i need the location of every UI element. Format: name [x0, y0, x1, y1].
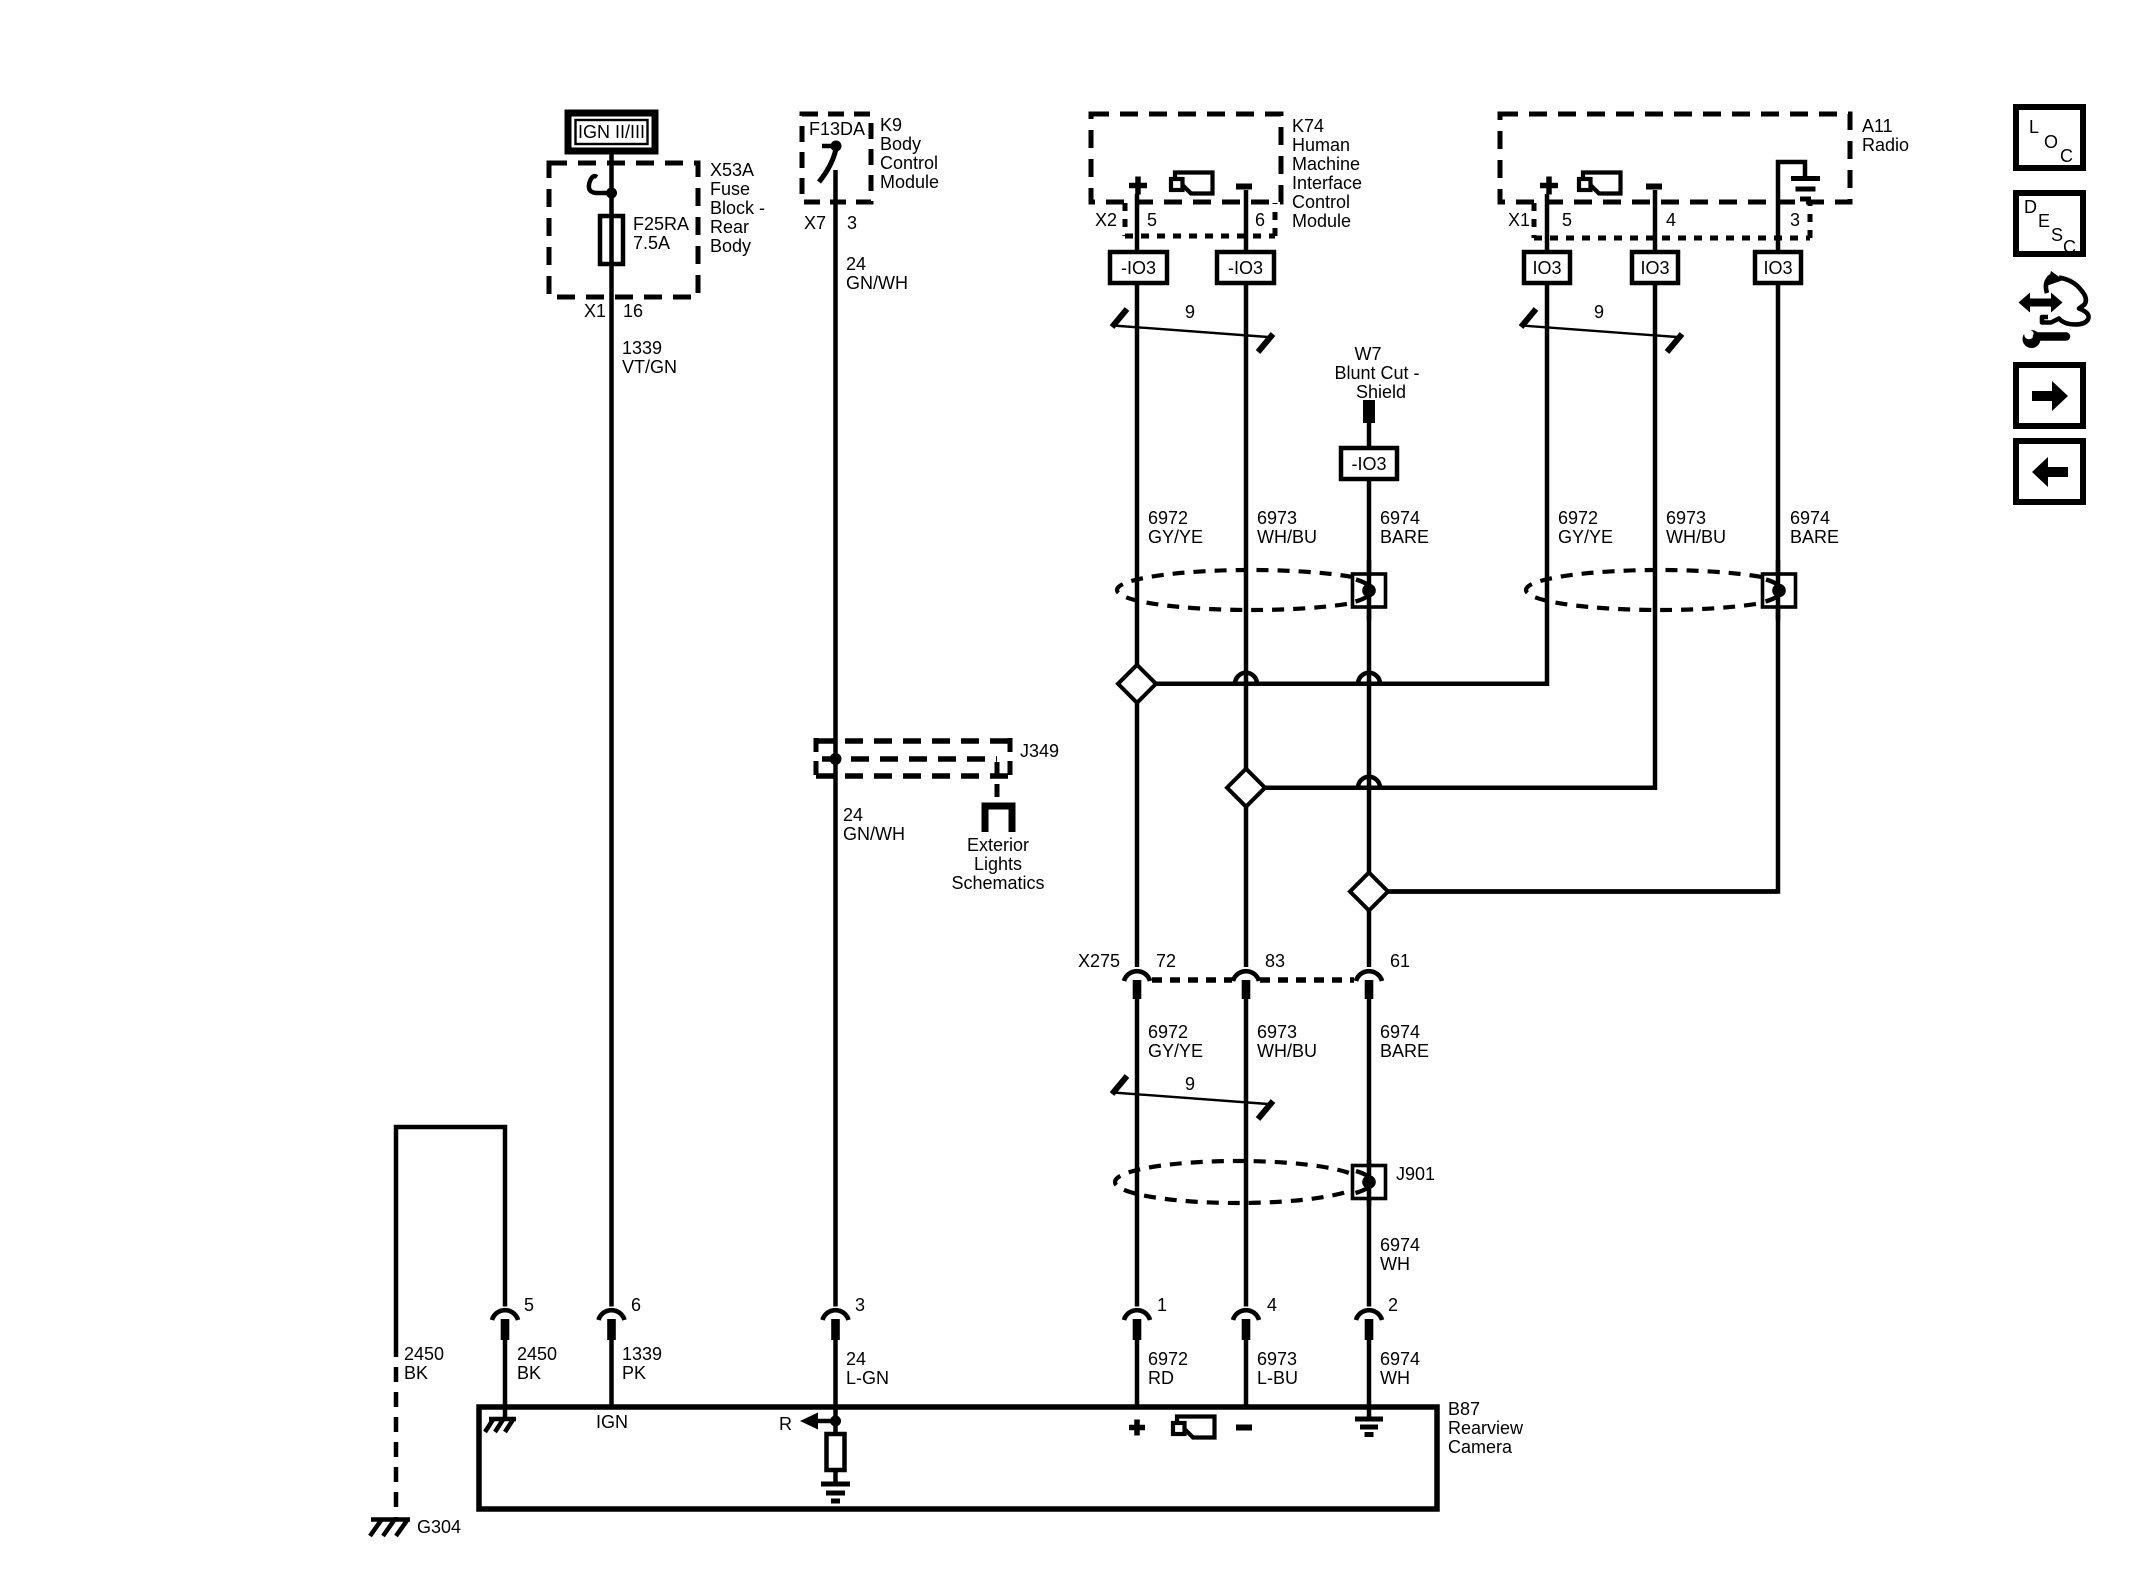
svg-text:E: E	[2038, 211, 2050, 231]
svg-text:GY/YE: GY/YE	[1558, 527, 1613, 547]
svg-text:C: C	[2060, 146, 2073, 166]
wire K74 pin6 to -IO3	[1244, 190, 1249, 252]
camera icon A11	[1579, 173, 1621, 194]
svg-text:IO3: IO3	[1640, 258, 1669, 278]
svg-text:S: S	[2051, 225, 2063, 245]
minus terminal camera	[1236, 1425, 1252, 1431]
svg-text:O: O	[2044, 132, 2058, 152]
svg-text:X53A: X53A	[710, 160, 754, 180]
shield drain box J901	[1353, 1166, 1386, 1199]
nav icon diagnostic (arrow and wrench)	[2012, 271, 2089, 348]
wire 6973 below X275	[1244, 999, 1249, 1307]
svg-text:X2: X2	[1095, 210, 1117, 230]
wire IGN feed into fuse block	[609, 152, 614, 216]
svg-text:L: L	[2029, 117, 2039, 137]
svg-text:24: 24	[843, 805, 863, 825]
camera connector pin 6	[599, 1310, 625, 1340]
plus terminal K74	[1129, 177, 1147, 195]
junction link BARE	[1388, 889, 1778, 894]
junction diamond BARE	[1350, 873, 1388, 911]
nav icon LOC	[2016, 107, 2083, 168]
svg-text:6974: 6974	[1380, 1235, 1420, 1255]
svg-text:Body: Body	[710, 236, 751, 256]
shield ellipse (HMI side)	[1117, 570, 1385, 610]
blunt cut stub W7	[1363, 400, 1375, 423]
svg-text:-IO3: -IO3	[1351, 454, 1386, 474]
junction dot BCM switch	[831, 141, 842, 152]
svg-text:6973: 6973	[1666, 508, 1706, 528]
svg-text:-IO3: -IO3	[1121, 258, 1156, 278]
svg-text:72: 72	[1156, 951, 1176, 971]
wire 24 GN/WH from BCM down	[833, 170, 838, 1307]
svg-text:16: 16	[623, 301, 643, 321]
svg-text:WH/BU: WH/BU	[1257, 527, 1317, 547]
svg-text:5: 5	[524, 1295, 534, 1315]
ground symbol below resistor	[821, 1484, 850, 1501]
ground branch wire 2450 BK left	[396, 1127, 505, 1342]
svg-text:BK: BK	[517, 1363, 541, 1383]
fuse F25RA	[600, 216, 623, 264]
svg-text:9: 9	[1185, 302, 1195, 322]
ground G304	[370, 1519, 410, 1536]
svg-text:6972: 6972	[1148, 1349, 1188, 1369]
rearview camera B87 box	[479, 1407, 1437, 1509]
wire stub to -IO3	[1367, 423, 1372, 448]
svg-text:RD: RD	[1148, 1368, 1174, 1388]
svg-text:6972: 6972	[1148, 508, 1188, 528]
svg-text:Radio: Radio	[1862, 135, 1909, 155]
nav icon next arrow	[2016, 365, 2083, 426]
svg-text:WH/BU: WH/BU	[1257, 1041, 1317, 1061]
power tag IGN II/III	[568, 113, 655, 151]
dashed wire to G304	[394, 1342, 399, 1518]
svg-text:IO3: IO3	[1763, 258, 1792, 278]
junction dot J349	[830, 753, 842, 765]
shield ground inside camera	[1355, 1419, 1383, 1435]
connector X275 dashed row	[1152, 977, 1232, 983]
svg-text:1339: 1339	[622, 338, 662, 358]
tag IO3 (A11 pin5)	[1524, 252, 1570, 283]
wire radio BARE down to junction	[1388, 283, 1778, 892]
svg-text:1: 1	[1157, 1295, 1167, 1315]
splice J349 dashed box	[816, 738, 1010, 779]
svg-text:G304: G304	[417, 1517, 461, 1537]
svg-text:-IO3: -IO3	[1228, 258, 1263, 278]
camera icon B87	[1173, 1417, 1215, 1438]
svg-text:K74: K74	[1292, 116, 1324, 136]
K74 pin row dotted	[1125, 203, 1275, 236]
svg-text:3: 3	[855, 1295, 865, 1315]
svg-text:6974: 6974	[1380, 508, 1420, 528]
svg-text:WH: WH	[1380, 1368, 1410, 1388]
svg-text:BK: BK	[404, 1363, 428, 1383]
svg-text:X275: X275	[1078, 951, 1120, 971]
svg-text:9: 9	[1185, 1074, 1195, 1094]
radio A11 dashed box	[1500, 114, 1850, 202]
svg-text:GN/WH: GN/WH	[843, 824, 905, 844]
svg-text:BARE: BARE	[1380, 1041, 1429, 1061]
tag IO3 (A11 pin3)	[1755, 252, 1801, 283]
svg-text:5: 5	[1147, 210, 1157, 230]
twisted pair symbol 9 (radio)	[1521, 302, 1682, 352]
ground symbol inside radio	[1778, 162, 1820, 202]
tag -IO3 (K74 pin5)	[1110, 252, 1167, 283]
svg-text:Body: Body	[880, 134, 921, 154]
svg-text:R: R	[779, 1414, 792, 1434]
wire 6974 below X275	[1367, 999, 1372, 1307]
junction link WH/BU with hop	[1265, 777, 1655, 788]
svg-text:F13DA: F13DA	[809, 119, 865, 139]
svg-text:6973: 6973	[1257, 1349, 1297, 1369]
svg-text:GN/WH: GN/WH	[846, 273, 908, 293]
svg-text:J901: J901	[1396, 1164, 1435, 1184]
svg-text:6: 6	[1255, 210, 1265, 230]
svg-text:X1: X1	[584, 301, 606, 321]
svg-text:2450: 2450	[404, 1344, 444, 1364]
svg-text:24: 24	[846, 1349, 866, 1369]
shield ellipse (radio side)	[1526, 570, 1794, 610]
svg-text:6972: 6972	[1148, 1022, 1188, 1042]
dashed drop from J349	[995, 762, 1000, 800]
svg-text:4: 4	[1666, 210, 1676, 230]
svg-text:IO3: IO3	[1532, 258, 1561, 278]
twisted pair symbol 9 (HMI)	[1112, 302, 1273, 352]
svg-text:Schematics: Schematics	[951, 873, 1044, 893]
wire BARE through drain box (HMI)	[1367, 560, 1372, 620]
svg-text:L-GN: L-GN	[846, 1368, 889, 1388]
wire 6973 WH/BU (HMI) down	[1244, 283, 1249, 967]
svg-text:K9: K9	[880, 115, 902, 135]
svg-text:X7: X7	[804, 213, 826, 233]
junction dot at fuse feed	[606, 188, 617, 199]
svg-text:Control: Control	[1292, 192, 1350, 212]
wires into camera box right side	[1135, 1340, 1140, 1409]
svg-text:Exterior: Exterior	[967, 835, 1029, 855]
switch hook in fuse block	[589, 176, 609, 193]
wire A11 pin5 to IO3	[1545, 194, 1550, 252]
svg-text:6974: 6974	[1790, 508, 1830, 528]
wire 6972 below X275	[1135, 999, 1140, 1307]
wire A11 pin4 to IO3	[1653, 190, 1658, 252]
resistor inside camera	[827, 1434, 845, 1470]
shield drain box (radio side)	[1763, 574, 1796, 607]
svg-text:VT/GN: VT/GN	[622, 357, 677, 377]
svg-text:5: 5	[1562, 210, 1572, 230]
svg-text:F25RA: F25RA	[633, 214, 689, 234]
plus terminal A11	[1540, 177, 1558, 195]
svg-text:GY/YE: GY/YE	[1148, 1041, 1203, 1061]
svg-text:3: 3	[847, 213, 857, 233]
svg-text:WH: WH	[1380, 1254, 1410, 1274]
svg-text:A11: A11	[1862, 116, 1893, 136]
junction dot R	[830, 1416, 841, 1427]
svg-text:J349: J349	[1020, 741, 1059, 761]
connector X275 pin 83	[1233, 971, 1259, 999]
minus terminal K74	[1236, 184, 1252, 190]
junction diamond WH/BU	[1227, 769, 1265, 807]
BCM F13DA dashed box	[802, 114, 871, 202]
svg-text:1339: 1339	[622, 1344, 662, 1364]
svg-text:Module: Module	[880, 172, 939, 192]
wire radio WH/BU down to junction	[1265, 283, 1655, 788]
fuse block X53A dashed box	[549, 163, 698, 297]
svg-text:Rearview: Rearview	[1448, 1418, 1524, 1438]
connector X275 pin 72	[1124, 971, 1150, 999]
svg-text:9: 9	[1594, 302, 1604, 322]
wire 6974 BARE (shield) down	[1367, 479, 1372, 967]
nav icon back arrow	[2016, 441, 2083, 502]
camera connector pin 2	[1356, 1310, 1382, 1340]
wire 1339 VT/GN from fuse to camera	[609, 264, 614, 1307]
svg-text:BARE: BARE	[1380, 527, 1429, 547]
svg-text:GY/YE: GY/YE	[1148, 527, 1203, 547]
svg-text:Machine: Machine	[1292, 154, 1360, 174]
svg-text:2: 2	[1388, 1295, 1398, 1315]
svg-text:Shield: Shield	[1356, 382, 1406, 402]
connector X275 pin 61	[1356, 971, 1382, 999]
camera connector pin 5	[492, 1310, 518, 1340]
camera connector pin 3	[823, 1310, 849, 1340]
svg-text:Human: Human	[1292, 135, 1350, 155]
wire BARE through drain box (radio)	[1776, 560, 1781, 620]
svg-text:6972: 6972	[1558, 508, 1598, 528]
svg-text:6: 6	[631, 1295, 641, 1315]
svg-text:83: 83	[1265, 951, 1285, 971]
svg-text:WH/BU: WH/BU	[1666, 527, 1726, 547]
svg-text:61: 61	[1390, 951, 1410, 971]
junction link GY/YE with hops	[1156, 673, 1547, 684]
svg-text:7.5A: 7.5A	[633, 233, 670, 253]
svg-text:W7: W7	[1355, 344, 1382, 364]
A11 pin row dotted	[1534, 203, 1810, 238]
svg-text:PK: PK	[622, 1363, 646, 1383]
svg-text:B87: B87	[1448, 1399, 1480, 1419]
off-page fork to Exterior Lights Schematics	[985, 806, 1012, 832]
svg-text:BARE: BARE	[1790, 527, 1839, 547]
svg-text:D: D	[2024, 197, 2037, 217]
svg-text:Control: Control	[880, 153, 938, 173]
wire K74 pin5 to -IO3	[1135, 194, 1140, 252]
tag IO3 (A11 pin4)	[1632, 252, 1678, 283]
nav icon DESC	[2016, 193, 2083, 257]
tag -IO3 (W7 shield)	[1341, 448, 1397, 479]
chassis ground inside camera (pin5)	[485, 1418, 516, 1432]
svg-text:Interface: Interface	[1292, 173, 1362, 193]
HMI module K74 dashed box	[1091, 114, 1281, 202]
svg-text:6974: 6974	[1380, 1022, 1420, 1042]
svg-text:IGN II/III: IGN II/III	[578, 122, 645, 142]
plus terminal camera	[1129, 1420, 1145, 1436]
camera connector pin 4	[1233, 1310, 1259, 1340]
svg-text:6974: 6974	[1380, 1349, 1420, 1369]
svg-text:Blunt Cut -: Blunt Cut -	[1334, 363, 1419, 383]
minus terminal A11	[1646, 184, 1662, 190]
svg-text:IGN: IGN	[596, 1412, 628, 1432]
wire resistor to ground	[833, 1470, 838, 1483]
svg-text:Lights: Lights	[974, 854, 1022, 874]
svg-text:Rear: Rear	[710, 217, 749, 237]
wire radio GY/YE down to junction	[1156, 283, 1547, 684]
svg-text:2450: 2450	[517, 1344, 557, 1364]
svg-text:X1: X1	[1508, 210, 1530, 230]
svg-text:Module: Module	[1292, 211, 1351, 231]
reverse signal arrow	[800, 1413, 834, 1430]
svg-text:4: 4	[1267, 1295, 1277, 1315]
camera connector pin 1	[1124, 1310, 1150, 1340]
switch lever in BCM	[819, 149, 836, 182]
wire 6972 GY/YE (HMI) down	[1135, 283, 1140, 967]
camera icon K74	[1171, 173, 1213, 194]
wire A11 pin3 to IO3	[1776, 202, 1781, 252]
wires into camera box left side	[503, 1340, 508, 1420]
svg-text:Fuse: Fuse	[710, 179, 750, 199]
junction diamond GY/YE	[1118, 665, 1156, 703]
wire through J901 box	[1367, 1160, 1372, 1206]
svg-text:C: C	[2063, 237, 2076, 257]
tag -IO3 (K74 pin6)	[1217, 252, 1274, 283]
svg-text:L-BU: L-BU	[1257, 1368, 1298, 1388]
shield drain box (HMI side)	[1353, 574, 1386, 607]
svg-text:3: 3	[1790, 210, 1800, 230]
svg-text:6973: 6973	[1257, 508, 1297, 528]
svg-text:Camera: Camera	[1448, 1437, 1513, 1457]
svg-text:Block -: Block -	[710, 198, 765, 218]
shield ellipse J901	[1115, 1161, 1361, 1203]
twisted pair symbol 9 (below X275)	[1112, 1074, 1273, 1119]
svg-text:24: 24	[846, 254, 866, 274]
svg-text:6973: 6973	[1257, 1022, 1297, 1042]
